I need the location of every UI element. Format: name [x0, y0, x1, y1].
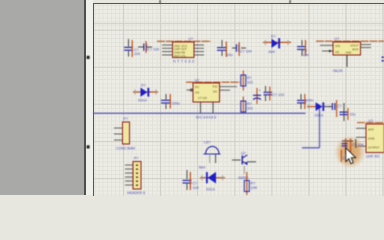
svg-text:10R: 10R	[251, 186, 258, 190]
svg-text:R?: R?	[247, 102, 252, 106]
svg-text:+: +	[259, 88, 262, 93]
svg-text:R?: R?	[247, 76, 252, 80]
svg-text:VIN: VIN	[335, 44, 340, 48]
svg-text:OUTPUT: OUTPUT	[368, 146, 380, 150]
svg-text:GND: GND	[368, 137, 376, 141]
svg-text:10u: 10u	[303, 53, 309, 57]
svg-text:U?: U?	[195, 78, 200, 82]
svg-text:C?: C?	[337, 105, 342, 109]
svg-text:D?: D?	[271, 35, 276, 39]
svg-text:104: 104	[134, 52, 140, 56]
svg-text:UHF-RX: UHF-RX	[366, 155, 380, 159]
svg-text:CE: CE	[335, 50, 339, 54]
svg-text:C? 104: C? 104	[148, 48, 160, 52]
svg-text:CT GD: CT GD	[198, 96, 207, 100]
svg-text:10u: 10u	[227, 53, 233, 57]
svg-text:GND: GND	[346, 51, 352, 55]
svg-text:CON3 5MM: CON3 5MM	[116, 147, 135, 151]
svg-text:C? 103: C? 103	[273, 93, 285, 97]
svg-text:RST CTL: RST CTL	[174, 54, 186, 58]
svg-text:ANT: ANT	[368, 128, 374, 132]
svg-text:104: 104	[193, 186, 199, 190]
svg-text:INV: INV	[213, 85, 218, 89]
svg-text:331: 331	[247, 107, 253, 111]
svg-text:SS14: SS14	[315, 113, 324, 117]
svg-text:DC: DC	[195, 85, 199, 89]
svg-text:SS14: SS14	[138, 99, 147, 103]
svg-text:P?: P?	[134, 156, 138, 160]
svg-text:HT7033: HT7033	[173, 60, 194, 64]
svg-text:U?: U?	[369, 119, 374, 123]
svg-text:HEADER 6: HEADER 6	[127, 191, 145, 195]
svg-text:U?: U?	[335, 37, 340, 41]
svg-text:100n: 100n	[306, 99, 314, 103]
svg-text:SS14: SS14	[206, 187, 215, 191]
svg-text:BYP: BYP	[352, 47, 358, 51]
svg-text:100u: 100u	[172, 102, 180, 106]
svg-text:78L05: 78L05	[333, 69, 343, 73]
svg-text:Bell: Bell	[199, 166, 205, 170]
svg-text:102: 102	[247, 81, 253, 85]
svg-text:C? 104: C? 104	[240, 50, 252, 54]
svg-text:C? 104: C? 104	[352, 143, 364, 147]
svg-text:10u: 10u	[350, 113, 356, 117]
svg-text:U?: U?	[189, 37, 194, 41]
svg-text:OS: OS	[195, 91, 199, 95]
svg-text:LS?: LS?	[204, 141, 210, 145]
svg-text:A04: A04	[269, 50, 275, 54]
svg-text:D?: D?	[141, 84, 146, 88]
svg-text:P?: P?	[124, 117, 128, 121]
svg-text:MC34063: MC34063	[196, 116, 216, 120]
svg-text:R?: R?	[251, 182, 256, 186]
svg-text:Q?: Q?	[241, 151, 246, 155]
